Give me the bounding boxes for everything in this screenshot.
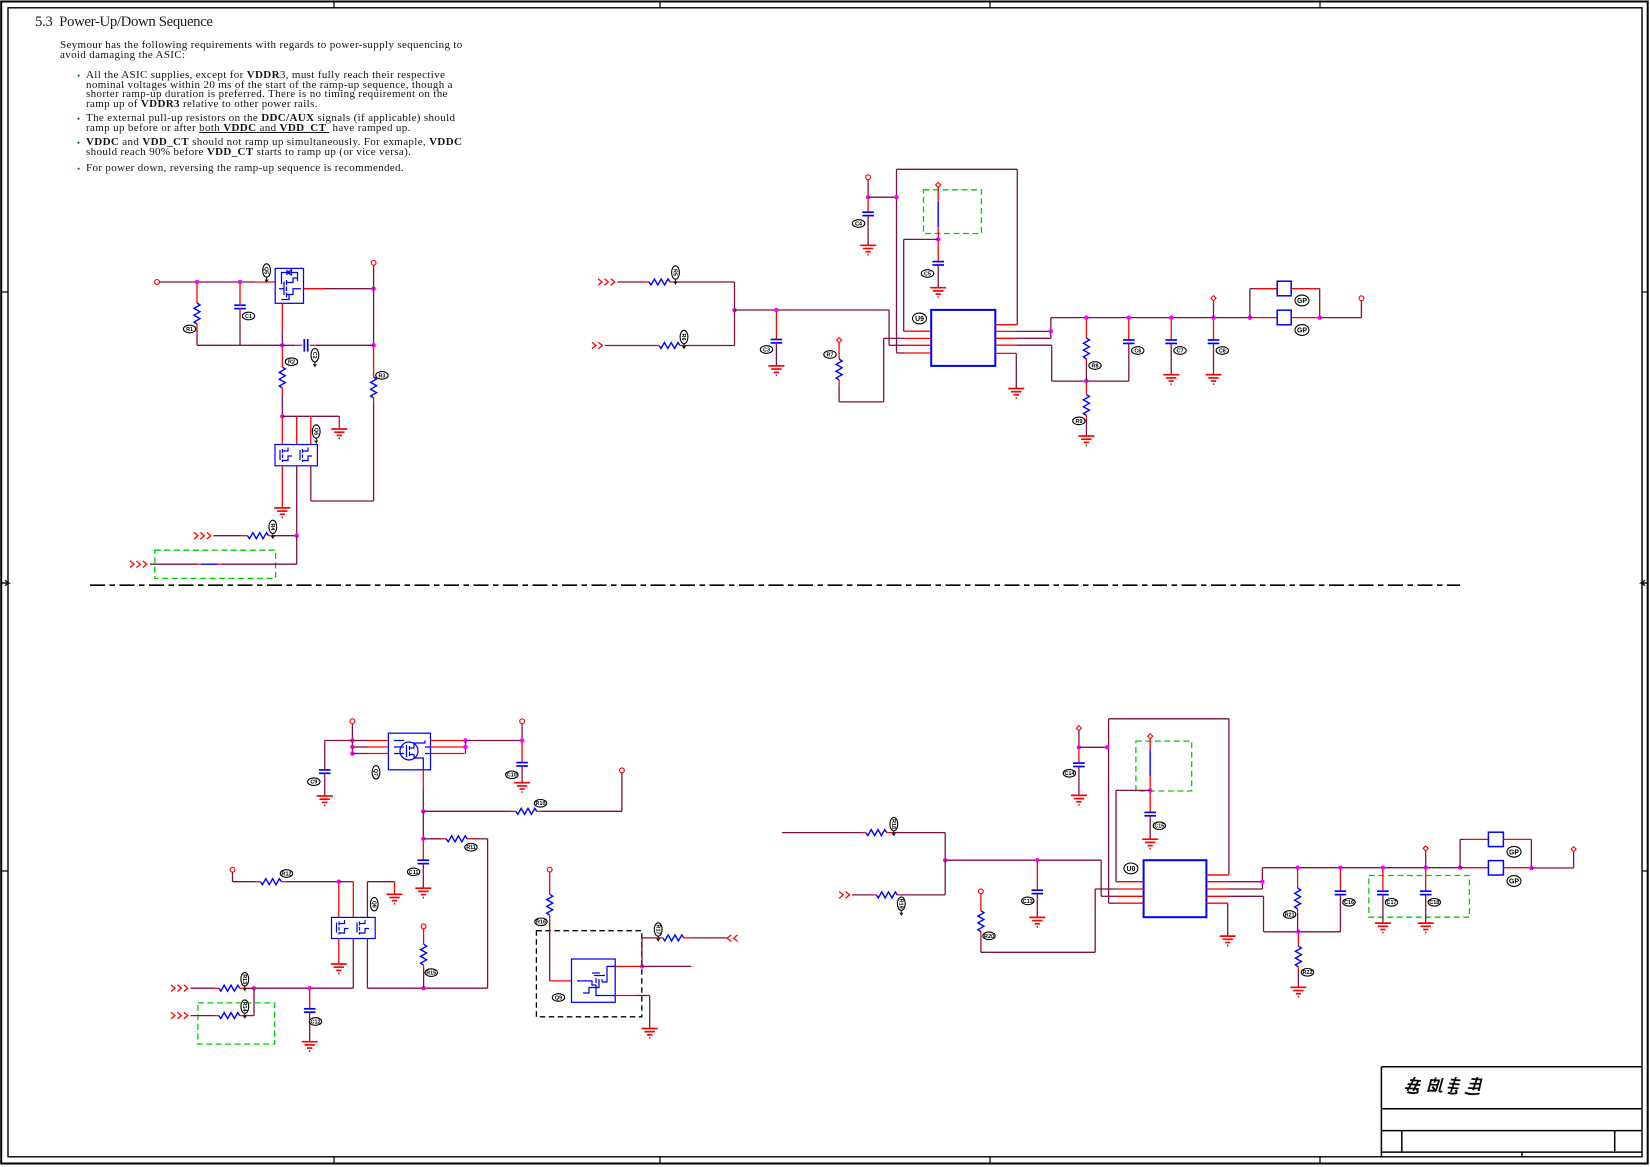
pin stub U10 right <box>1206 902 1227 904</box>
input port C-IN1 <box>598 279 615 286</box>
reference Q5 <box>263 264 271 282</box>
label C8 <box>1216 347 1228 355</box>
wire <box>861 832 866 834</box>
junction F5 <box>520 738 525 743</box>
ground F1 <box>317 796 333 805</box>
resistor R19 <box>876 892 897 898</box>
bullet 1 <box>77 71 80 81</box>
wire <box>1425 851 1427 855</box>
wire <box>1425 870 1427 891</box>
svg-text:U0: U0 <box>1126 866 1135 873</box>
ferrite bead FB1 <box>1277 281 1291 296</box>
border tick top <box>1319 2 1321 8</box>
wire <box>642 937 656 939</box>
junction F6 <box>421 809 426 814</box>
border tick bottom <box>333 1157 335 1164</box>
junction C2 <box>774 308 779 313</box>
wire <box>511 810 516 812</box>
wire <box>281 466 283 500</box>
wire <box>1170 320 1172 340</box>
label R14 <box>241 1000 249 1018</box>
wire <box>254 281 275 283</box>
svg-text:C15: C15 <box>1154 824 1164 830</box>
wire <box>980 936 982 952</box>
wire <box>1530 839 1532 868</box>
wire <box>239 313 241 346</box>
wire <box>197 563 201 565</box>
junction F10 <box>307 986 312 991</box>
wire <box>1227 903 1229 936</box>
pin stub U9 left <box>904 330 931 332</box>
wire <box>1016 169 1018 324</box>
capacitor C18 <box>1420 891 1432 894</box>
wire <box>1085 420 1087 436</box>
wire <box>281 418 283 445</box>
terminal C-OUT <box>1359 296 1364 301</box>
junction F11 <box>421 986 426 991</box>
wire <box>373 398 375 404</box>
svg-text:R10: R10 <box>536 801 546 807</box>
svg-text:U9: U9 <box>915 316 924 323</box>
wire <box>903 330 906 332</box>
wire <box>442 838 447 840</box>
pin stub U9 right <box>995 337 1016 339</box>
wire <box>309 990 311 1008</box>
wire <box>734 310 736 346</box>
wire <box>1100 860 1102 896</box>
junction A1 <box>195 280 200 285</box>
wire <box>1116 789 1150 791</box>
wire <box>980 894 982 911</box>
wire <box>775 346 777 365</box>
wire <box>995 324 1017 326</box>
label R18 <box>890 817 898 835</box>
wire <box>537 810 542 812</box>
resistor R4 <box>248 533 269 539</box>
label R10 <box>534 800 546 808</box>
ground C6 <box>1163 375 1179 384</box>
svg-text:Q8: Q8 <box>370 901 376 908</box>
wire <box>214 987 219 989</box>
wire <box>422 864 424 888</box>
wire <box>339 881 354 883</box>
pin stub Q7 left <box>368 753 389 755</box>
resistor R18 <box>866 830 887 836</box>
junction C11 <box>1211 315 1216 320</box>
wire <box>310 344 316 346</box>
capacitor C9 <box>319 770 331 773</box>
wire <box>937 242 939 262</box>
wire <box>1339 895 1341 932</box>
capacitor C12 <box>304 1009 316 1012</box>
wire <box>615 965 642 967</box>
title block frame <box>1381 1067 1642 1157</box>
junction F7 <box>421 837 426 842</box>
resistor R21 <box>1295 888 1301 909</box>
resistor R3 <box>371 377 377 398</box>
reference U9 <box>913 313 927 324</box>
wire <box>887 832 892 834</box>
wire <box>1016 330 1051 332</box>
wire <box>883 338 885 402</box>
svg-text:R21: R21 <box>1285 912 1295 918</box>
input port C-IN2 <box>592 342 602 349</box>
resistor R8 <box>1083 338 1089 359</box>
wire <box>281 331 283 345</box>
wire <box>296 536 298 565</box>
wire <box>1318 317 1320 319</box>
wire <box>1228 895 1264 897</box>
wire <box>775 343 777 346</box>
net label segment (blue) <box>201 563 218 565</box>
junction F2b <box>350 751 355 756</box>
svg-text:C6: C6 <box>1134 348 1141 354</box>
border tick top <box>989 2 991 8</box>
pin stub U9 left <box>904 344 931 346</box>
wire <box>1297 934 1299 946</box>
junction C7 <box>1084 379 1089 384</box>
svg-text:C13: C13 <box>1023 899 1033 905</box>
label GP3 <box>1507 846 1521 857</box>
label C10 <box>506 771 518 779</box>
junction G12 <box>1458 865 1463 870</box>
wire <box>1255 288 1277 290</box>
wire <box>1213 320 1215 340</box>
wire <box>159 281 254 283</box>
reference Q6 <box>312 425 320 443</box>
ground C4 <box>1008 389 1024 398</box>
ground C3 <box>930 288 946 297</box>
wire <box>245 1015 255 1017</box>
junction G2 <box>1035 858 1040 863</box>
ground G2 <box>1071 795 1087 804</box>
capacitor C16 <box>1335 891 1347 894</box>
highlight box (green dashed) F <box>198 1003 275 1044</box>
wire <box>338 416 340 429</box>
wire <box>692 937 727 939</box>
capacitor C11 <box>418 860 430 863</box>
wire <box>394 882 396 894</box>
junction G4 <box>1105 745 1110 750</box>
terminal VIN A <box>155 280 160 285</box>
wire <box>196 330 198 345</box>
ground C7 <box>1206 375 1222 384</box>
wire <box>1339 870 1341 891</box>
resistor R11 <box>446 836 467 842</box>
wire <box>867 199 869 212</box>
label C16 <box>1343 899 1355 907</box>
svg-text:R22: R22 <box>1303 970 1313 976</box>
wire <box>1115 790 1117 881</box>
svg-text:R8: R8 <box>1092 363 1099 369</box>
svg-text:C10: C10 <box>507 773 517 779</box>
wire <box>1573 852 1575 868</box>
svg-text:R20: R20 <box>984 934 994 940</box>
transistor Q6 (dual) <box>275 445 317 466</box>
wire <box>1149 739 1151 750</box>
wire <box>1016 337 1051 339</box>
terminal C-SNS <box>936 182 941 187</box>
wire <box>621 773 623 812</box>
junction F1 <box>350 738 355 743</box>
label R12 <box>280 870 292 878</box>
wire <box>422 790 424 811</box>
resistor R17 <box>663 935 684 941</box>
wire <box>896 169 898 353</box>
ground C5 <box>1078 436 1094 445</box>
wire <box>465 741 467 754</box>
border tick right <box>1642 291 1648 293</box>
wire <box>422 770 424 790</box>
wire <box>1503 867 1529 869</box>
label R15 <box>425 969 437 977</box>
ground G5 <box>1290 987 1306 996</box>
wire <box>1085 416 1087 420</box>
wire <box>1149 816 1151 839</box>
svg-text:R2: R2 <box>288 360 295 366</box>
reference U10 <box>1124 863 1138 874</box>
wire <box>605 345 655 347</box>
wire <box>550 980 572 982</box>
resistor R6 <box>659 343 680 349</box>
junction C10 <box>1169 315 1174 320</box>
wire <box>1051 345 1053 381</box>
pin stub Q7 left <box>368 746 389 748</box>
transistor Q9 <box>572 959 616 1002</box>
wire <box>1085 320 1087 338</box>
label R19 <box>897 897 905 915</box>
pin stub U10 right <box>1206 895 1227 897</box>
label C6 <box>1132 347 1144 355</box>
label R13 <box>241 973 249 991</box>
label R22 <box>1301 969 1313 977</box>
wire <box>1382 895 1384 923</box>
wire <box>296 416 298 444</box>
wire <box>310 416 312 444</box>
wire <box>1263 896 1265 932</box>
resistor R14 <box>219 1013 240 1019</box>
IC U9 <box>931 310 995 366</box>
wire <box>316 344 374 346</box>
wire <box>1050 318 1052 339</box>
wire <box>1052 380 1129 382</box>
pin stub U10 left <box>1117 895 1144 897</box>
label GP4 <box>1507 876 1521 887</box>
junction C9 <box>1127 315 1132 320</box>
wire <box>1095 888 1117 890</box>
svg-text:R5: R5 <box>672 269 678 276</box>
terminal G-CAP <box>1076 726 1081 731</box>
input port G-IN2 <box>839 892 849 899</box>
wire <box>981 951 1095 953</box>
wire <box>980 932 982 936</box>
wire <box>281 500 283 508</box>
label R3 <box>376 372 388 380</box>
wire <box>1109 718 1229 720</box>
wire <box>775 312 777 339</box>
resistor R5 <box>649 279 670 285</box>
svg-text:R12: R12 <box>282 871 292 877</box>
wire <box>735 309 890 311</box>
junction F9 <box>252 986 257 991</box>
svg-text:Q9: Q9 <box>555 995 562 1001</box>
border tick right <box>1642 870 1648 872</box>
wire <box>233 881 256 883</box>
wire <box>1250 288 1255 290</box>
wire <box>1503 838 1529 840</box>
wire <box>1264 931 1341 933</box>
wire <box>838 386 840 402</box>
resistor R2 <box>279 367 285 388</box>
svg-text:C17: C17 <box>1387 900 1397 906</box>
wire <box>649 996 651 1029</box>
wire <box>218 563 222 565</box>
highlight box (green dashed) G2 <box>1369 876 1470 918</box>
wire <box>1460 867 1463 869</box>
resistor R10 <box>516 808 537 814</box>
label GP2 <box>1295 325 1309 336</box>
wire <box>1078 749 1080 762</box>
junction C13 <box>1317 315 1322 320</box>
wire <box>1464 838 1489 840</box>
capacitor C13 <box>1032 890 1044 893</box>
wire <box>1360 301 1362 318</box>
wire <box>680 345 685 347</box>
terminal G-VO <box>1423 846 1428 851</box>
svg-text:R14: R14 <box>241 1002 247 1012</box>
wire <box>542 810 622 812</box>
wire <box>338 884 340 918</box>
wire <box>521 766 523 783</box>
capacitor C4 <box>862 212 874 215</box>
wire <box>1425 895 1427 923</box>
svg-text:R18: R18 <box>890 819 896 829</box>
pin stub U10 right <box>1206 881 1227 883</box>
wire <box>1115 881 1118 883</box>
ground G6 <box>1375 923 1391 932</box>
wire <box>1250 317 1252 319</box>
label R16 <box>535 918 547 926</box>
pin stub U10 left <box>1117 902 1144 904</box>
wire <box>487 839 489 988</box>
wire <box>1149 776 1151 788</box>
wire <box>324 773 326 796</box>
wire <box>897 352 905 354</box>
wire <box>867 216 869 246</box>
input port EN2 <box>130 561 147 568</box>
label R6 <box>680 330 688 348</box>
net label segment (blue) <box>937 201 939 227</box>
junction F2 <box>350 745 355 750</box>
wire <box>945 859 1101 861</box>
capacitor C10 <box>516 763 528 766</box>
reference Q7 <box>372 766 380 779</box>
wire <box>196 284 198 303</box>
wire <box>351 724 353 754</box>
junction F12 <box>640 964 645 969</box>
capacitor C14 <box>1073 763 1085 766</box>
wire <box>944 860 946 895</box>
wire <box>286 881 339 883</box>
wire <box>734 282 736 310</box>
label R21 <box>1283 911 1295 919</box>
border tick left <box>1 291 8 293</box>
wire <box>1261 868 1263 889</box>
svg-text:R13: R13 <box>241 974 247 984</box>
junction G7 <box>1296 930 1301 935</box>
svg-text:GP: GP <box>1509 849 1519 856</box>
junction F8 <box>337 879 342 884</box>
border center arrow right <box>1641 580 1648 585</box>
wire <box>325 740 353 742</box>
junction C5 <box>936 237 941 242</box>
label C17 <box>1385 899 1397 907</box>
svg-text:R15: R15 <box>426 971 436 977</box>
wire <box>423 838 441 840</box>
ground A2 <box>274 508 290 517</box>
output port F-OUT <box>727 935 737 942</box>
svg-text:R3: R3 <box>378 373 385 379</box>
resistor R9 <box>1083 395 1089 416</box>
wire <box>373 347 375 377</box>
wire <box>903 239 905 331</box>
resistor R13 <box>219 985 240 991</box>
junction A7 <box>294 533 299 538</box>
pin stub Q7 right <box>431 746 465 748</box>
wire <box>295 344 302 346</box>
terminal C-R <box>837 338 842 343</box>
wire <box>1228 719 1230 875</box>
ground F5 <box>331 964 347 973</box>
wire <box>656 937 663 939</box>
resistor R7 <box>836 359 842 380</box>
label C14 <box>1063 770 1075 778</box>
terminal F-D <box>547 867 552 872</box>
svg-text:R19: R19 <box>897 899 903 909</box>
wire output bus G <box>1262 867 1460 869</box>
wire <box>281 388 283 394</box>
junction A2 <box>238 280 243 285</box>
wire <box>1252 317 1277 319</box>
wire <box>253 988 255 1015</box>
label R20 <box>983 932 995 940</box>
wire <box>281 347 283 367</box>
junction A6 <box>280 414 285 419</box>
terminal F-VOUT <box>520 719 525 724</box>
wire <box>282 415 339 417</box>
wire <box>549 915 551 920</box>
bullet 4 <box>77 164 80 174</box>
svg-text:C3: C3 <box>763 347 770 353</box>
wire <box>1094 889 1096 952</box>
border tick bottom <box>1319 1157 1321 1164</box>
ground C1 <box>768 366 784 375</box>
wire <box>1291 317 1318 319</box>
resistor R12 <box>260 879 281 885</box>
wire <box>1213 301 1215 305</box>
junction C3 <box>866 195 871 200</box>
wire <box>1101 895 1117 897</box>
label C9 <box>308 778 320 786</box>
junction G8 <box>1295 865 1300 870</box>
wire <box>422 811 424 839</box>
label C18 <box>1428 899 1440 907</box>
junction C1 <box>732 308 737 313</box>
svg-text:C1: C1 <box>245 314 252 320</box>
wire <box>839 401 884 403</box>
junction G3 <box>1077 745 1082 750</box>
wire <box>1078 731 1080 748</box>
